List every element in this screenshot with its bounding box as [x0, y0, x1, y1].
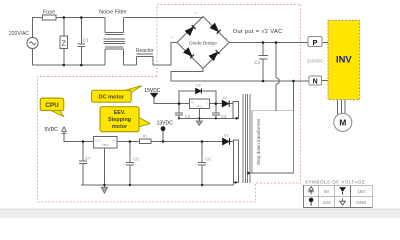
svg-text:C7: C7 [85, 156, 91, 161]
capacitor C3 plates [212, 113, 220, 115]
wire: N to INV [322, 80, 328, 82]
wire: C1 taps [80, 18, 82, 66]
wire: noise filter top to bridge top corner [124, 17, 203, 19]
transformer core lines [243, 94, 250, 183]
wire: 15VDC rail [154, 98, 189, 104]
svg-text:GND: GND [356, 200, 367, 205]
wire: noise filter to reactor [124, 64, 137, 66]
voltage regulator IC1 7812 [189, 99, 209, 109]
svg-text:7805: 7805 [102, 143, 109, 147]
svg-text:D3: D3 [224, 133, 229, 137]
svg-text:15V: 15V [357, 189, 365, 194]
wire: R1 to 13V node to C6 [151, 141, 223, 143]
legend symbol 15V [339, 188, 345, 195]
svg-text:+: + [225, 37, 228, 42]
svg-text:7812: 7812 [196, 105, 203, 109]
svg-text:~: ~ [196, 69, 199, 74]
bottom rail [81, 183, 234, 186]
diode bridge diodes [184, 24, 221, 61]
svg-text:motor: motor [112, 124, 128, 130]
junction dots 12V circuit [178, 102, 217, 119]
svg-text:13VDC: 13VDC [157, 120, 174, 126]
dashed section box: control/low-voltage section (bottom) [38, 77, 301, 202]
callout EEV stepping motor [100, 107, 150, 132]
svg-text:INV: INV [336, 54, 352, 65]
svg-text:5V: 5V [324, 189, 330, 194]
noise filter coil top [105, 18, 124, 35]
svg-text:C4: C4 [185, 114, 191, 119]
step down transformer primary box [252, 111, 294, 173]
diode bridge top-left [186, 28, 194, 36]
capacitor C1 plates [78, 38, 90, 47]
capacitor C4 plates [175, 113, 183, 115]
svg-text:Fuse: Fuse [43, 10, 55, 16]
ground wire under regulator [179, 117, 237, 119]
junction dots top-left [63, 16, 83, 66]
svg-text:−: − [171, 35, 174, 40]
svg-text:D2: D2 [196, 84, 201, 88]
svg-text:Noise Filter: Noise Filter [99, 10, 127, 16]
motor M [334, 113, 352, 131]
svg-text:Stepping: Stepping [108, 117, 131, 123]
diode D1 [222, 96, 229, 107]
wire: IC1 out to D1 [209, 103, 222, 105]
junction dot winding2 bottom [234, 181, 236, 183]
legend symbol GND [340, 198, 346, 205]
capacitor C6 wires [201, 142, 203, 186]
legend table grid [303, 185, 372, 207]
wire: D3 to winding2 [230, 141, 234, 143]
svg-text:D1: D1 [223, 96, 228, 100]
svg-text:C6: C6 [205, 157, 211, 162]
svg-text:Out put = √2 VAC: Out put = √2 VAC [233, 28, 283, 35]
dashed section box: rectifier section (top) [157, 5, 301, 77]
terminal N [309, 76, 322, 86]
wire: reactor to bridge left corner [153, 43, 177, 66]
wire: + output to P terminal [229, 42, 308, 44]
svg-text:P: P [312, 38, 317, 47]
voltage regulator IC2 7805 [94, 137, 117, 148]
wire: bridge bottom corner to bus [171, 69, 309, 82]
junction dot transformer bottom [247, 172, 250, 175]
svg-text:Step down transformer: Step down transformer [256, 118, 261, 165]
svg-text:~: ~ [194, 11, 197, 16]
wire: transformer primary from bus [293, 81, 295, 111]
capacitor C4 wires [178, 104, 180, 119]
capacitor C7 wires [82, 142, 84, 186]
capacitor C2 plates [259, 55, 268, 59]
inverter INV [328, 20, 360, 99]
ground symbol under IC1 [196, 121, 202, 125]
junction dots on + line and bus [262, 41, 295, 82]
wire: transformer primary from + line (with hop over bus) [276, 43, 279, 111]
terminal P [308, 37, 322, 47]
wire: AC source bottom to noise filter bottom [33, 49, 105, 65]
diode D3 [223, 133, 230, 145]
capacitor C7 plates [79, 161, 87, 163]
noise filter coil bottom [105, 47, 124, 65]
bottom divider strip [0, 209, 400, 218]
5VDC power flag [45, 127, 67, 134]
diode bridge top-right [210, 24, 218, 32]
capacitor C5 plates [126, 163, 134, 165]
diode bridge diamond [177, 17, 229, 69]
junction dot winding1 bottom [235, 117, 238, 120]
secondary winding 1 [233, 102, 239, 119]
svg-text:EEV.: EEV. [114, 110, 126, 116]
bridge terminal labels [171, 11, 229, 75]
wire: IC2 to R1 [117, 141, 139, 143]
motor feed lines INV to M [338, 100, 345, 115]
svg-text:R1: R1 [143, 134, 148, 138]
svg-text:220V/AC: 220V/AC [9, 31, 29, 37]
svg-text:15VDC: 15VDC [144, 88, 161, 94]
svg-text:DC motor: DC motor [99, 95, 125, 101]
legend symbol 13V [309, 198, 314, 206]
13VDC power flag (ball) [157, 120, 174, 141]
wire: regulator bypass loop [179, 91, 216, 104]
wire: D1 to winding1 [229, 103, 233, 105]
svg-text:310VDC: 310VDC [307, 58, 324, 63]
diode bridge bottom-left [184, 48, 192, 56]
diode bridge bottom-right [209, 53, 217, 61]
svg-text:C3: C3 [221, 114, 227, 119]
wire: transformer bottom return [248, 172, 293, 174]
svg-text:N: N [313, 79, 318, 86]
capacitor C5 wires [129, 142, 131, 186]
diode D2 (loop top) [196, 84, 202, 94]
svg-text:SYMBOLS OF VOLTAGE: SYMBOLS OF VOLTAGE [305, 180, 365, 185]
resistor R1 [139, 134, 150, 143]
IC2 ground pin [103, 148, 105, 188]
svg-text:C2: C2 [254, 60, 260, 65]
ground arrow below rail [101, 187, 107, 193]
capacitor C3 wires [215, 104, 217, 119]
wire: 5VDC flag to IC2 [64, 133, 94, 142]
svg-text:CPU: CPU [45, 102, 59, 109]
callout CPU [40, 98, 63, 116]
IC1 ground pin [198, 109, 200, 122]
AC source 220V/AC [9, 31, 38, 49]
capacitor C6 plates [198, 163, 206, 165]
capacitor C2 wires [262, 43, 264, 82]
svg-text:M: M [339, 118, 346, 128]
wire: fuse to noise filter [56, 17, 105, 19]
fuse F [42, 10, 56, 21]
svg-text:Reactor: Reactor [136, 48, 154, 54]
varistor Z [60, 36, 68, 48]
secondary winding 2 [234, 140, 239, 183]
svg-text:Diode Bridge: Diode Bridge [189, 41, 217, 47]
wire: P to INV [322, 42, 328, 44]
wire: Z box taps [63, 18, 65, 66]
junction dots low-voltage [82, 140, 204, 186]
15VDC power flag [144, 88, 161, 98]
svg-text:OuT: OuT [95, 139, 101, 143]
svg-text:5VDC: 5VDC [45, 127, 59, 133]
svg-text:IN: IN [191, 101, 194, 105]
svg-text:13V: 13V [323, 200, 331, 205]
legend symbol 5V [309, 187, 314, 195]
svg-text:C5: C5 [133, 157, 139, 162]
noise filter core [104, 39, 125, 43]
wire: AC source to fuse (top) [33, 18, 43, 38]
reactor coil [137, 54, 153, 65]
svg-text:Z: Z [62, 40, 67, 47]
svg-text:IN: IN [112, 139, 115, 143]
callout DC motor [92, 86, 143, 103]
svg-text:C1: C1 [83, 38, 89, 43]
